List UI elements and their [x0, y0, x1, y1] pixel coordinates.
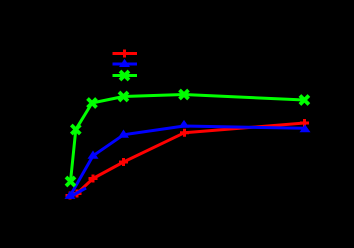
red marker point 4 [180, 129, 189, 137]
blue marker point 2 [88, 151, 99, 159]
legend red marker [120, 50, 129, 58]
green marker point 1 [66, 177, 75, 186]
red marker point 1 [66, 192, 75, 200]
red marker point 2a (mostly hidden) [73, 190, 82, 198]
green marker point 4 [119, 92, 128, 101]
green marker point 5 [180, 90, 189, 99]
blue marker point 4 [179, 120, 190, 128]
green marker point 2 [71, 125, 80, 134]
blue wedge segment near origin [71, 188, 87, 197]
legend green marker [120, 71, 129, 80]
red marker point 3 [119, 158, 128, 166]
blue marker point 5 [300, 124, 311, 132]
legend green sample [113, 74, 138, 77]
green curve line [71, 95, 305, 182]
legend blue sample [113, 63, 138, 66]
green marker point 6 [300, 96, 309, 105]
red curve line [70, 123, 305, 196]
red marker point 2 [89, 175, 98, 183]
blue curve line [70, 126, 305, 196]
legend blue marker [119, 59, 130, 67]
blue marker point 3 [118, 130, 129, 138]
red marker point 5 [300, 119, 309, 127]
legend red sample [113, 52, 138, 55]
green marker point 3 [88, 99, 97, 108]
blue marker point 1 [65, 191, 76, 199]
